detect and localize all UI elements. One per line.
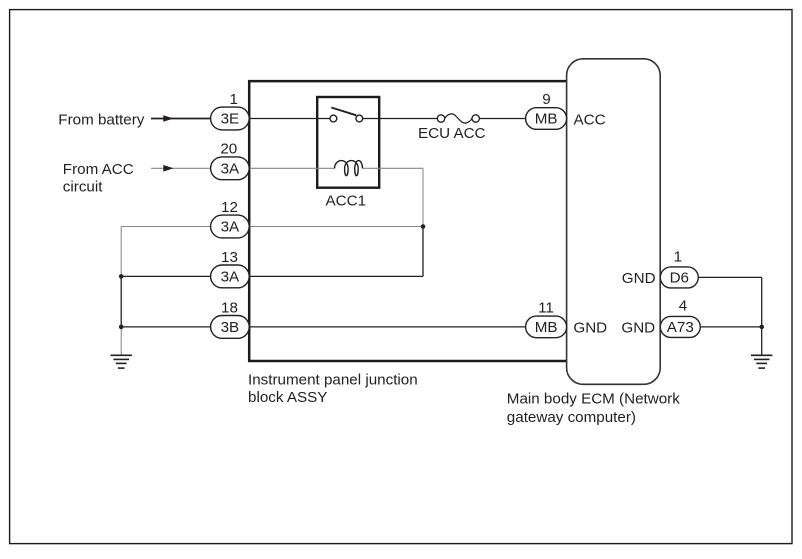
svg-text:From battery: From battery (58, 112, 144, 129)
svg-text:ACC1: ACC1 (326, 193, 367, 210)
svg-text:3A: 3A (221, 219, 240, 236)
svg-text:GND: GND (573, 320, 607, 337)
svg-text:1: 1 (674, 248, 682, 265)
svg-text:12: 12 (221, 199, 238, 216)
svg-text:ECU ACC: ECU ACC (418, 125, 486, 142)
svg-text:block ASSY: block ASSY (248, 389, 327, 406)
svg-text:ACC: ACC (574, 111, 606, 128)
svg-text:Main body ECM (Network: Main body ECM (Network (507, 391, 680, 408)
svg-text:GND: GND (621, 320, 655, 337)
svg-text:20: 20 (220, 140, 237, 157)
svg-text:From ACC: From ACC (63, 161, 134, 178)
svg-text:11: 11 (538, 300, 554, 317)
svg-text:9: 9 (542, 91, 550, 108)
svg-text:18: 18 (221, 299, 238, 316)
svg-text:3A: 3A (221, 269, 240, 286)
svg-text:D6: D6 (670, 270, 689, 287)
svg-text:13: 13 (221, 249, 238, 266)
svg-text:4: 4 (679, 297, 687, 314)
svg-text:3A: 3A (221, 161, 240, 178)
svg-text:Instrument panel junction: Instrument panel junction (248, 371, 418, 388)
svg-text:gateway computer): gateway computer) (507, 409, 636, 426)
svg-text:MB: MB (535, 319, 558, 336)
svg-text:3B: 3B (221, 319, 240, 336)
svg-text:GND: GND (622, 270, 656, 287)
svg-text:circuit: circuit (63, 178, 103, 195)
svg-text:MB: MB (535, 111, 558, 128)
svg-text:1: 1 (229, 91, 237, 108)
svg-text:3E: 3E (221, 111, 240, 128)
svg-text:A73: A73 (667, 319, 694, 336)
